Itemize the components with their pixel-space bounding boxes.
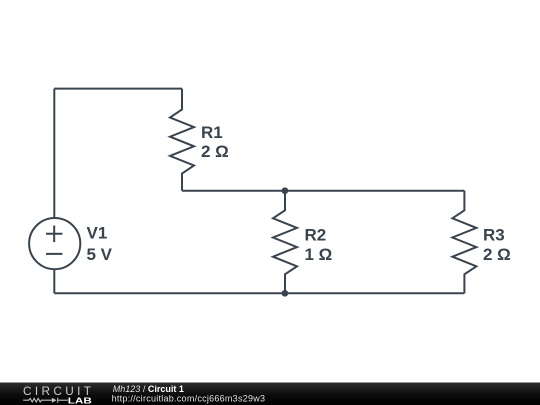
wire left vertical: [53, 89, 55, 219]
svg-text:R3: R3: [483, 225, 505, 244]
svg-text:V1: V1: [87, 224, 108, 243]
wire top horizontal: [54, 88, 182, 90]
voltage source V1: [29, 218, 80, 269]
wire middle horizontal: [182, 190, 464, 192]
svg-text:http://circuitlab.com/ccj666m3: http://circuitlab.com/ccj666m3s29w3: [112, 393, 266, 403]
wire below V1: [53, 269, 55, 294]
svg-text:R1: R1: [201, 123, 223, 142]
CircuitLab logo: [23, 384, 92, 405]
node B junction dot: [282, 290, 289, 297]
svg-text:5 V: 5 V: [87, 245, 113, 264]
wire bottom horizontal: [54, 292, 464, 294]
resistor R1: [170, 89, 194, 191]
svg-text:2 Ω: 2 Ω: [201, 142, 229, 161]
svg-text:LAB: LAB: [68, 396, 92, 405]
node A junction dot: [282, 187, 289, 194]
svg-text:2 Ω: 2 Ω: [483, 245, 511, 264]
svg-text:1 Ω: 1 Ω: [305, 245, 333, 264]
footer bar: [0, 383, 540, 405]
svg-text:R2: R2: [305, 225, 327, 244]
resistor R3: [452, 191, 476, 293]
resistor R2: [273, 191, 297, 293]
